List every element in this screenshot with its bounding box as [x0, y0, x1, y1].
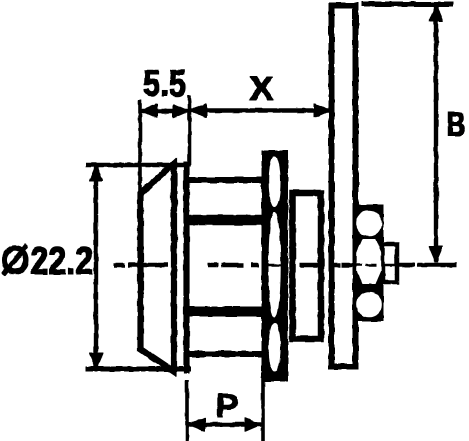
svg-text:B: B [447, 107, 466, 144]
svg-text:22.2: 22.2 [31, 240, 94, 283]
svg-text:5.5: 5.5 [143, 62, 186, 104]
svg-text:P: P [216, 388, 239, 425]
svg-text:X: X [250, 70, 274, 108]
